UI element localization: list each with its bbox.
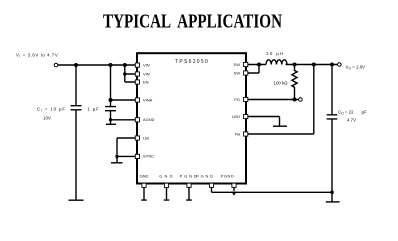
- svg-text:TPS62050: TPS62050: [175, 59, 209, 65]
- svg-text:LBO: LBO: [232, 114, 240, 119]
- svg-text:4.7V: 4.7V: [347, 118, 356, 123]
- svg-text:VI = 3.6V to 4.7V: VI = 3.6V to 4.7V: [16, 53, 58, 59]
- svg-text:CO = 22µF: CO = 22µF: [338, 110, 367, 116]
- svg-text:EN: EN: [143, 79, 149, 84]
- svg-text:10 µH: 10 µH: [266, 51, 285, 56]
- svg-text:FB: FB: [235, 131, 240, 136]
- svg-text:VINA: VINA: [143, 97, 153, 102]
- svg-text:100 kΩ: 100 kΩ: [274, 80, 289, 85]
- svg-text:VIN: VIN: [143, 62, 150, 67]
- svg-text:SYNC: SYNC: [143, 154, 154, 159]
- svg-text:SW: SW: [234, 62, 241, 67]
- svg-text:LBI: LBI: [143, 135, 149, 140]
- svg-text:GND: GND: [140, 173, 149, 178]
- svg-text:GND: GND: [159, 173, 175, 178]
- svg-text:PGND: PGND: [196, 173, 215, 178]
- svg-text:AGND: AGND: [143, 117, 155, 122]
- svg-text:SW: SW: [234, 70, 241, 75]
- svg-text:1 µF: 1 µF: [88, 106, 100, 111]
- svg-text:TYPICAL APPLICATION: TYPICAL APPLICATION: [103, 11, 282, 32]
- svg-text:PG: PG: [234, 97, 240, 102]
- svg-text:CI = 10 µF: CI = 10 µF: [37, 106, 66, 112]
- svg-text:VIN: VIN: [143, 71, 150, 76]
- svg-text:10V: 10V: [43, 116, 51, 121]
- svg-text:PGND: PGND: [221, 173, 235, 178]
- svg-text:VO = 1.8V: VO = 1.8V: [346, 64, 366, 70]
